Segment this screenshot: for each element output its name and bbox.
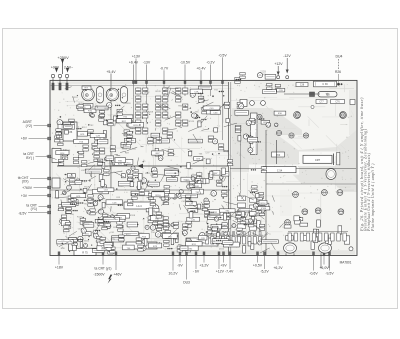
svg-text:-12V: -12V [283,54,291,58]
svg-text:R 75: R 75 [82,251,88,255]
svg-text:R215: R215 [145,173,151,175]
svg-text:(XX): (XX) [22,180,29,184]
svg-text:-0.5V: -0.5V [218,53,227,57]
svg-text:+3,2V: +3,2V [199,263,209,267]
svg-text:R318: R318 [148,111,154,113]
svg-text:R12K: R12K [118,186,124,188]
svg-text:2.5V~: 2.5V~ [64,65,73,69]
svg-text:B112: B112 [126,234,132,236]
svg-text:R318: R318 [103,166,109,168]
svg-text:+6.4V: +6.4V [129,61,139,65]
svg-text:R143: R143 [122,149,128,151]
svg-text:ta CRT (y1): ta CRT (y1) [95,266,112,270]
svg-text:C77: C77 [319,102,324,104]
svg-text:DU3: DU3 [183,280,190,284]
svg-text:BY( ): BY( ) [26,156,34,160]
svg-text:T104: T104 [261,208,267,210]
svg-text:T104: T104 [98,192,104,194]
svg-text:R116: R116 [133,125,139,127]
svg-text:Platine imprimée Unité 4 ( amp: Platine imprimée Unité 4 ( ampli Y ) [371,163,375,232]
svg-text:10,2V: 10,2V [168,271,178,275]
svg-text:R143: R143 [149,199,155,201]
svg-text:-0.2V: -0.2V [206,61,215,65]
svg-text:DU4: DU4 [335,54,342,58]
svg-text:+12V: +12V [274,62,283,66]
svg-text:T104: T104 [197,122,203,124]
svg-text:+6,2V: +6,2V [273,266,283,270]
svg-text:R318: R318 [130,215,136,217]
svg-text:+0,5V: +0,5V [253,263,263,267]
svg-text:B112: B112 [184,180,190,182]
svg-text:R318: R318 [125,103,131,105]
svg-text:-9V: -9V [177,263,183,267]
svg-text:+13V: +13V [132,55,141,59]
svg-text:-0,6V: -0,6V [309,272,318,276]
svg-text:R26: R26 [335,70,341,74]
svg-text:-1500V: -1500V [93,272,105,276]
svg-text:+0.4V: +0.4V [196,66,206,70]
svg-text:R318: R318 [100,219,106,221]
svg-text:R215: R215 [72,97,78,99]
svg-text:+760V: +760V [22,186,33,190]
svg-text:R215: R215 [65,150,71,152]
svg-text:(Y2): (Y2) [26,124,32,128]
svg-text:+46V: +46V [113,272,122,276]
svg-text:-5,2V: -5,2V [260,270,269,274]
svg-text:- 6V: - 6V [193,270,200,274]
svg-text:+12V -7,4V: +12V -7,4V [216,270,234,274]
svg-text:LA 4: LA 4 [136,204,142,208]
svg-text:R318: R318 [84,224,90,226]
svg-text:-9,5V: -9,5V [325,272,334,276]
svg-text:+6V: +6V [21,137,28,141]
svg-text:R318: R318 [178,105,184,107]
svg-text:-13V: -13V [143,61,151,65]
svg-text:B112: B112 [145,92,151,94]
svg-text:R116: R116 [156,195,162,197]
svg-text:R12K: R12K [84,186,90,188]
svg-text:+18V: +18V [55,266,64,270]
svg-text:B112: B112 [219,249,225,251]
svg-text:R12K: R12K [218,181,224,183]
svg-text:-0.7V: -0.7V [160,66,169,70]
svg-text:B112: B112 [82,127,88,129]
svg-text:MA7801: MA7801 [340,260,352,264]
svg-text:R143: R143 [77,217,83,219]
svg-text:-10.5V: -10.5V [180,61,191,65]
svg-text:C76: C76 [335,102,340,104]
svg-text:+5.4V: +5.4V [106,70,116,74]
svg-text:R12K: R12K [189,121,195,123]
svg-text:+90V: +90V [51,65,60,69]
svg-text:-8,5V: -8,5V [18,211,27,215]
svg-text:T63: T63 [325,94,330,97]
svg-text:R116: R116 [260,203,266,205]
svg-text:B112: B112 [84,240,90,242]
svg-text:+3V: +3V [21,194,28,198]
svg-text:+9V: +9V [220,263,227,267]
svg-text:R215: R215 [79,103,85,105]
svg-text:(Y1): (Y1) [31,207,37,211]
svg-text:C 54: C 54 [277,170,283,173]
svg-text:C38: C38 [300,85,305,87]
svg-text:B112: B112 [139,233,145,235]
svg-text:R12K: R12K [156,91,162,93]
svg-text:T104: T104 [127,123,133,125]
svg-text:CRT: CRT [315,158,321,162]
svg-text:C 39: C 39 [322,83,328,86]
